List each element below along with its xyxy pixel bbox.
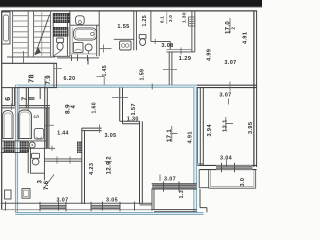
svg-text:1.44: 1.44 (57, 131, 69, 137)
svg-text:6.20: 6.20 (64, 76, 76, 82)
svg-text:4: 4 (71, 105, 77, 109)
svg-text:3.07: 3.07 (164, 177, 176, 183)
svg-text:7: 7 (22, 97, 29, 101)
svg-text:4.99: 4.99 (206, 49, 212, 61)
svg-text:1.59: 1.59 (139, 69, 145, 81)
svg-text:1.55: 1.55 (117, 24, 129, 30)
svg-text:1.45: 1.45 (102, 65, 108, 77)
svg-text:3.05: 3.05 (105, 133, 117, 139)
svg-text:сл: сл (34, 114, 40, 119)
svg-text:7.6: 7.6 (44, 180, 50, 190)
svg-text:3.94: 3.94 (207, 124, 213, 137)
svg-text:3.05: 3.05 (106, 197, 118, 203)
svg-text:3.07: 3.07 (224, 60, 236, 66)
svg-text:6: 6 (5, 97, 12, 101)
svg-text:78: 78 (27, 74, 36, 83)
svg-text:3.07: 3.07 (57, 197, 69, 203)
svg-text:12.9: 12.9 (106, 161, 113, 175)
svg-text:3.0: 3.0 (168, 15, 173, 22)
svg-text:1.30: 1.30 (181, 12, 187, 23)
svg-text:3.95: 3.95 (248, 122, 254, 134)
svg-text:2: 2 (231, 27, 236, 30)
svg-text:4.23: 4.23 (89, 163, 95, 175)
svg-text:6.1: 6.1 (160, 16, 165, 23)
svg-text:4.91: 4.91 (242, 32, 248, 44)
svg-text:3.04: 3.04 (220, 155, 232, 161)
svg-text:3.08: 3.08 (161, 43, 173, 49)
svg-text:1.29: 1.29 (179, 56, 192, 62)
svg-text:7.9: 7.9 (46, 75, 52, 85)
svg-text:3.0: 3.0 (240, 178, 246, 187)
svg-text:1.3: 1.3 (179, 190, 185, 199)
svg-text:1.30: 1.30 (127, 117, 139, 123)
svg-text:3: 3 (38, 180, 44, 184)
svg-text:1.25: 1.25 (142, 15, 148, 27)
svg-text:3.07: 3.07 (219, 93, 231, 99)
svg-text:1.60: 1.60 (92, 102, 98, 114)
svg-text:2: 2 (107, 156, 113, 160)
svg-text:1.57: 1.57 (131, 103, 137, 115)
svg-text:4.91: 4.91 (188, 131, 194, 143)
